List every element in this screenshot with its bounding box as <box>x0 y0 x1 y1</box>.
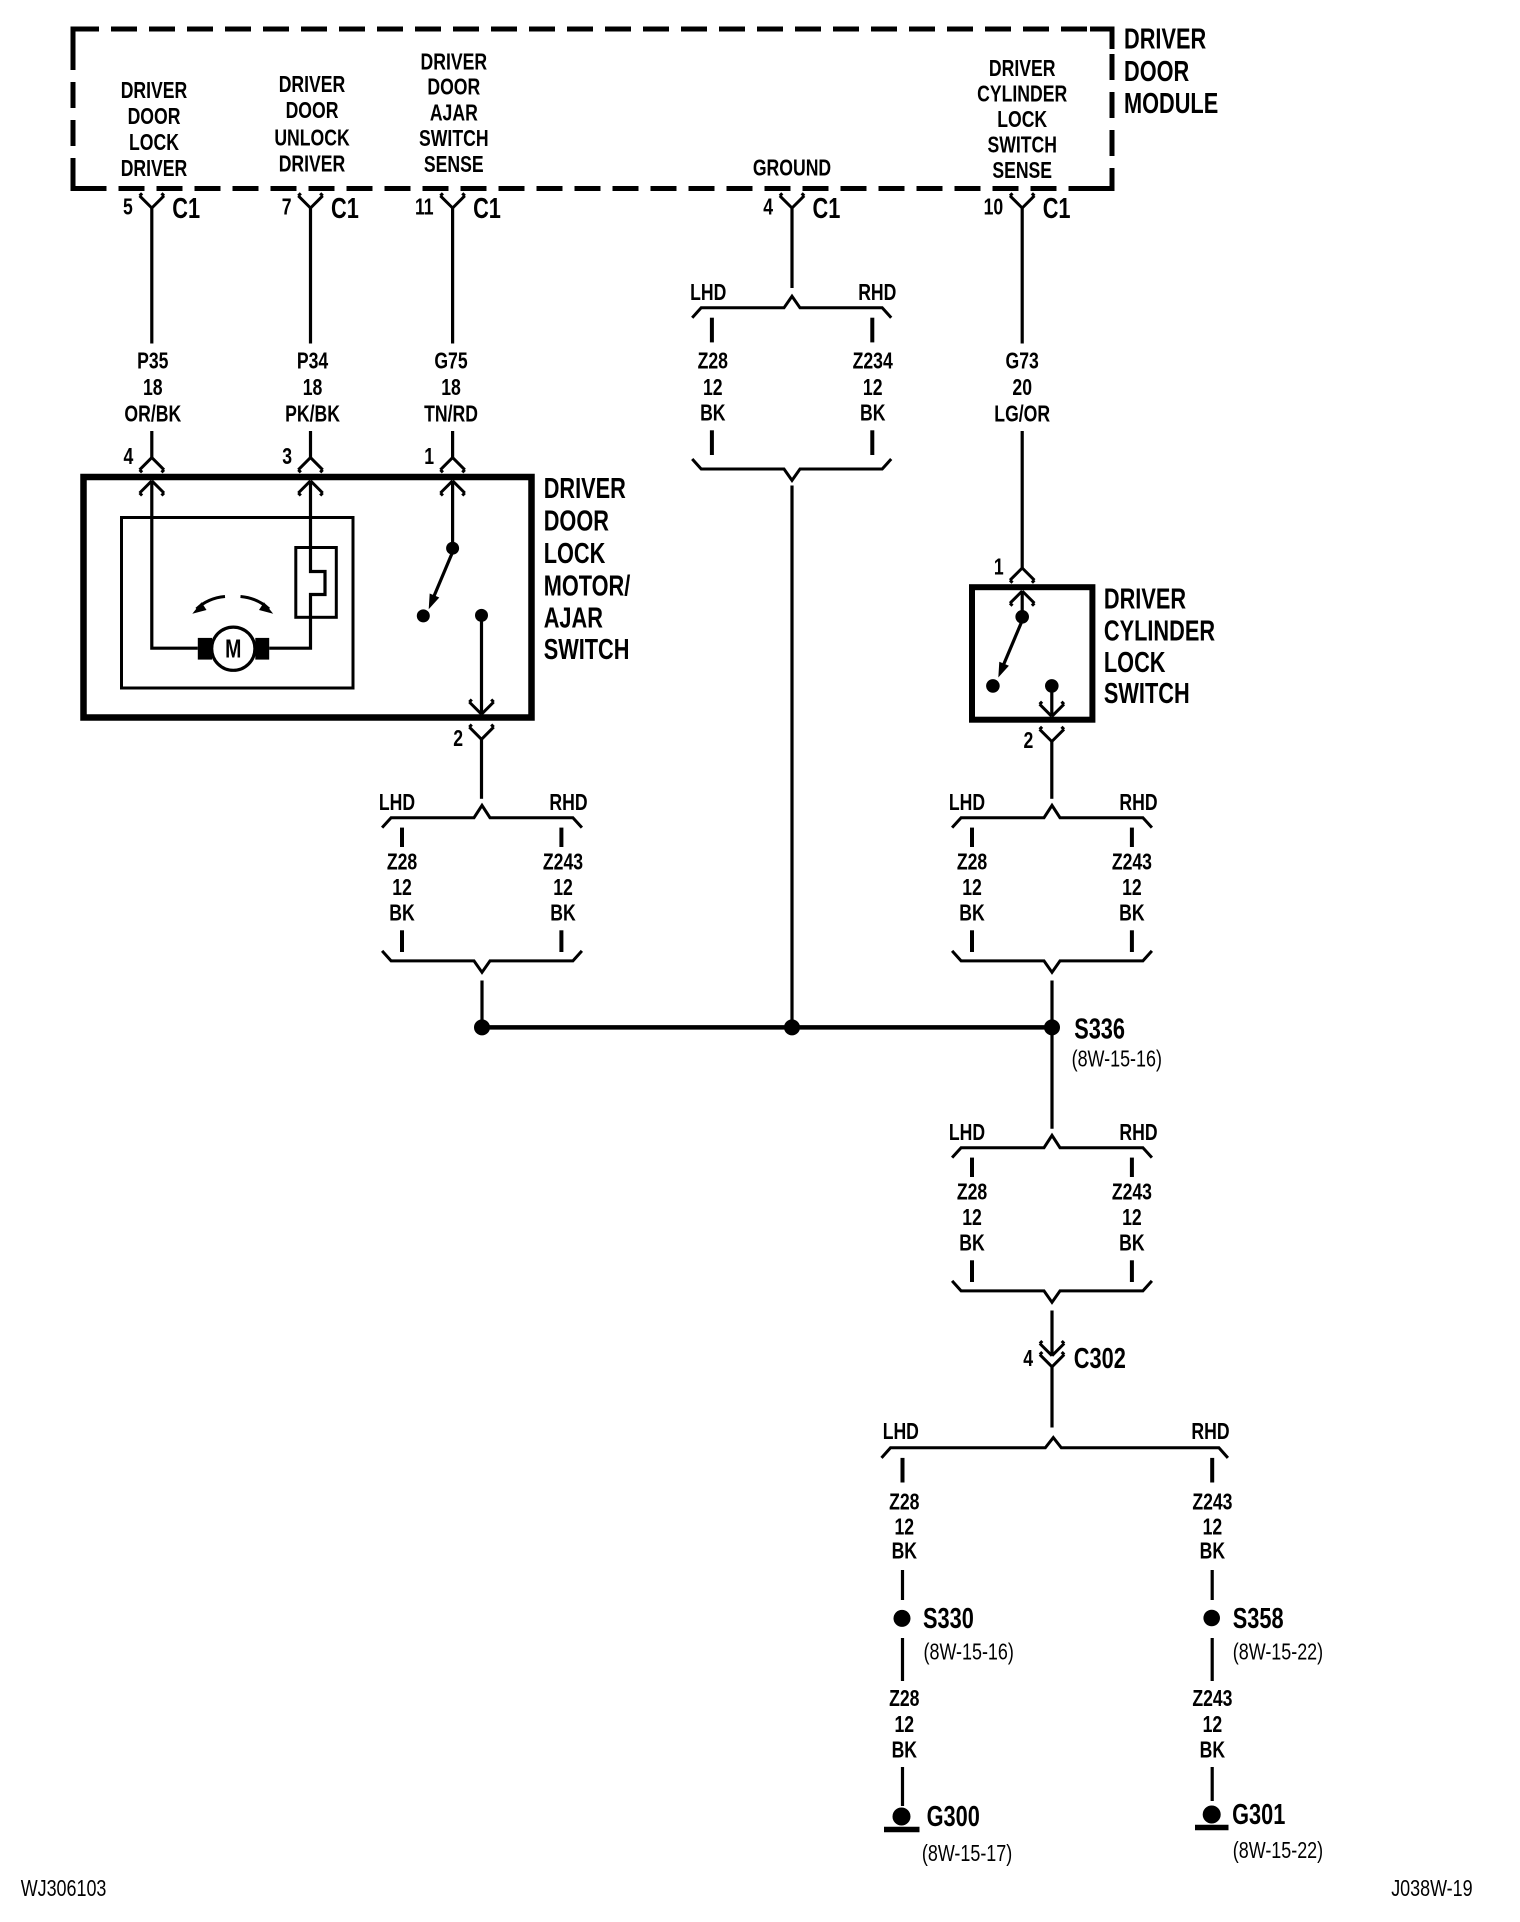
module pin label: DRIVER CYLINDER LOCK SWITCH SENSE <box>977 56 1067 184</box>
merge brace (cylinder) <box>952 951 1152 972</box>
svg-text:Z28: Z28 <box>957 1179 987 1205</box>
svg-text:BK: BK <box>389 900 414 926</box>
svg-text:DOOR: DOOR <box>286 98 339 124</box>
svg-text:PK/BK: PK/BK <box>285 401 340 427</box>
wire to connector C302 <box>1050 1311 1053 1356</box>
svg-text:3: 3 <box>282 444 292 470</box>
svg-text:CYLINDER: CYLINDER <box>977 81 1067 107</box>
svg-text:RHD: RHD <box>1191 1419 1229 1445</box>
wire latch to motor <box>269 617 310 648</box>
svg-text:C302: C302 <box>1074 1343 1126 1375</box>
svg-text:BK: BK <box>550 900 575 926</box>
svg-text:DRIVER: DRIVER <box>279 72 346 98</box>
svg-text:M: M <box>225 634 241 663</box>
svg-text:C1: C1 <box>331 193 359 225</box>
svg-text:DOOR: DOOR <box>1124 56 1189 88</box>
svg-text:DRIVER: DRIVER <box>1104 584 1186 616</box>
svg-text:12: 12 <box>863 375 883 401</box>
wire S336 down <box>1050 1027 1053 1128</box>
wire pin2 to LHD/RHD split (cylinder) <box>1050 742 1053 799</box>
svg-text:BK: BK <box>1200 1737 1225 1763</box>
splice bus wire <box>482 1025 1052 1030</box>
svg-text:LHD: LHD <box>949 789 985 815</box>
svg-text:18: 18 <box>143 375 163 401</box>
box pin 1 connector <box>424 444 465 496</box>
svg-text:S336: S336 <box>1074 1014 1125 1046</box>
ground G300 <box>884 1801 1012 1866</box>
wire Z28 12 BK (LHD cylinder) <box>957 828 987 952</box>
svg-text:12: 12 <box>392 875 412 901</box>
wire P34 18 PK/BK (pin 7 to unlock) <box>285 208 340 458</box>
svg-text:4: 4 <box>1023 1346 1033 1372</box>
svg-text:12: 12 <box>553 875 573 901</box>
connector C1 pin 7 <box>282 193 359 225</box>
svg-text:12: 12 <box>1203 1514 1223 1540</box>
svg-text:AJAR: AJAR <box>544 603 603 635</box>
wire S330 to G300: Z28 12 BK <box>889 1638 919 1806</box>
svg-text:(8W-15-22): (8W-15-22) <box>1233 1838 1323 1864</box>
component box: DRIVER CYLINDER LOCK SWITCH <box>972 587 1092 720</box>
box pin 4 connector <box>123 444 164 496</box>
motor M1 (door lock motor) <box>198 627 269 670</box>
wire Z234 12 BK (RHD ground) <box>853 318 894 455</box>
inner lock-motor assembly box <box>122 518 354 689</box>
svg-text:Z243: Z243 <box>1192 1489 1232 1515</box>
cylinder lock switch SW2 <box>986 591 1058 716</box>
wire cylinder to splice S336 <box>1050 981 1053 1028</box>
svg-text:12: 12 <box>962 875 982 901</box>
svg-text:BK: BK <box>1200 1538 1225 1564</box>
svg-text:12: 12 <box>894 1711 914 1737</box>
svg-text:RHD: RHD <box>858 280 896 306</box>
svg-text:DOOR: DOOR <box>427 74 480 100</box>
svg-text:(8W-15-16): (8W-15-16) <box>1072 1046 1162 1072</box>
wire G75 18 TN/RD (pin 11 ajar switch sense) <box>424 208 478 458</box>
svg-text:Z243: Z243 <box>1112 849 1152 875</box>
svg-text:18: 18 <box>441 375 461 401</box>
svg-text:C1: C1 <box>1043 193 1071 225</box>
merge brace (ajar) <box>382 951 582 972</box>
module pin label: DRIVER DOOR LOCK DRIVER <box>121 78 188 182</box>
svg-text:SENSE: SENSE <box>424 152 484 178</box>
svg-text:GROUND: GROUND <box>753 155 831 181</box>
svg-text:2: 2 <box>453 725 463 751</box>
svg-text:WJ306103: WJ306103 <box>21 1876 107 1902</box>
svg-text:C1: C1 <box>172 193 200 225</box>
svg-text:Z243: Z243 <box>1192 1686 1232 1712</box>
wire S358 to G301: Z243 12 BK <box>1192 1638 1232 1801</box>
wire pin4 to motor <box>152 481 198 648</box>
svg-text:BK: BK <box>860 400 885 426</box>
svg-text:RHD: RHD <box>549 789 587 815</box>
svg-text:Z28: Z28 <box>889 1489 919 1515</box>
module pin label: DRIVER DOOR AJAR SWITCH SENSE <box>419 49 488 178</box>
wire pin3 to latch <box>309 481 312 548</box>
splice S336 <box>1044 1014 1162 1072</box>
wire ground to splice S336 <box>790 486 793 1028</box>
svg-text:(8W-15-17): (8W-15-17) <box>922 1841 1012 1867</box>
svg-text:LHD: LHD <box>949 1119 985 1145</box>
svg-text:BK: BK <box>892 1737 917 1763</box>
svg-text:4: 4 <box>123 444 133 470</box>
LHD/RHD wide split brace <box>882 1419 1230 1458</box>
wire Z28 12 BK (LHD ground) <box>698 318 728 455</box>
svg-text:SENSE: SENSE <box>992 158 1052 184</box>
svg-text:SWITCH: SWITCH <box>987 132 1056 158</box>
svg-text:C1: C1 <box>473 193 501 225</box>
wire Z243 12 BK (RHD branch) <box>1192 1458 1232 1600</box>
svg-text:G301: G301 <box>1232 1799 1285 1831</box>
svg-text:SWITCH: SWITCH <box>419 126 488 152</box>
wire Z28 12 BK (LHD ajar) <box>387 828 417 952</box>
junction node (ajar) <box>474 1019 490 1035</box>
sheet number J038W-19 <box>1391 1876 1472 1902</box>
svg-text:OR/BK: OR/BK <box>124 401 181 427</box>
merge brace (S336 split) <box>952 1281 1152 1302</box>
svg-text:G300: G300 <box>927 1801 980 1833</box>
svg-text:LOCK: LOCK <box>544 538 606 570</box>
wire P35 18 OR/BK (pin 5 to lock motor) <box>124 208 181 458</box>
box pin 2 connector (cylinder switch out) <box>1023 702 1064 754</box>
svg-text:10: 10 <box>984 194 1004 220</box>
connector C1 pin 4 <box>763 193 840 225</box>
svg-text:LHD: LHD <box>883 1419 919 1445</box>
svg-text:DRIVER: DRIVER <box>989 56 1056 82</box>
svg-text:LHD: LHD <box>690 280 726 306</box>
LHD/RHD split brace (cylinder switch) <box>949 789 1158 827</box>
svg-text:J038W-19: J038W-19 <box>1391 1876 1472 1902</box>
svg-text:G73: G73 <box>1006 348 1039 374</box>
label: DRIVER DOOR MODULE <box>1124 23 1218 119</box>
svg-text:DRIVER: DRIVER <box>421 49 488 75</box>
svg-text:(8W-15-16): (8W-15-16) <box>924 1639 1014 1665</box>
svg-text:BK: BK <box>1119 900 1144 926</box>
svg-text:11: 11 <box>415 194 434 220</box>
svg-text:UNLOCK: UNLOCK <box>274 125 349 151</box>
wire Z243 12 BK (RHD S336) <box>1112 1158 1152 1282</box>
svg-text:DOOR: DOOR <box>128 104 181 130</box>
svg-text:12: 12 <box>1122 875 1142 901</box>
svg-text:RHD: RHD <box>1119 789 1157 815</box>
rotation arrows <box>192 597 273 614</box>
svg-text:12: 12 <box>703 375 723 401</box>
svg-text:DRIVER: DRIVER <box>279 151 346 177</box>
svg-text:S330: S330 <box>923 1603 974 1635</box>
svg-text:RHD: RHD <box>1119 1119 1157 1145</box>
svg-text:LOCK: LOCK <box>1104 647 1166 679</box>
connector C1 pin 11 <box>415 193 501 225</box>
svg-text:BK: BK <box>959 1230 984 1256</box>
module U1: DRIVER DOOR MODULE dashed box <box>73 29 1112 189</box>
wire ground pin 4 <box>790 208 793 288</box>
LHD/RHD split brace (below S336) <box>949 1119 1158 1157</box>
label: DRIVER CYLINDER LOCK SWITCH <box>1104 584 1215 710</box>
wire Z28 12 BK (LHD branch) <box>889 1458 919 1600</box>
svg-text:Z28: Z28 <box>889 1686 919 1712</box>
wire G73 20 LG/OR (pin 10 cylinder lock switch sense) <box>994 208 1050 568</box>
svg-text:5: 5 <box>123 194 133 220</box>
wire Z28 12 BK (LHD S336) <box>957 1158 987 1282</box>
svg-text:2: 2 <box>1023 728 1033 754</box>
box pin 2 connector (ajar switch out) <box>453 700 494 752</box>
splice S358 <box>1203 1603 1323 1665</box>
svg-text:18: 18 <box>303 375 323 401</box>
svg-text:DRIVER: DRIVER <box>544 473 626 505</box>
junction node (ground) <box>784 1019 800 1035</box>
ground G301 <box>1195 1799 1323 1863</box>
wire C302 to wide split <box>1050 1367 1053 1428</box>
svg-text:Z28: Z28 <box>698 348 728 374</box>
svg-text:1: 1 <box>424 444 434 470</box>
svg-text:AJAR: AJAR <box>430 100 478 126</box>
svg-text:G75: G75 <box>434 348 467 374</box>
svg-text:12: 12 <box>1203 1711 1223 1737</box>
svg-text:Z28: Z28 <box>387 849 417 875</box>
svg-text:DOOR: DOOR <box>544 506 609 538</box>
svg-text:1: 1 <box>994 554 1004 580</box>
connector C302 pin 4 <box>1023 1341 1126 1375</box>
connector C1 pin 5 <box>123 193 200 225</box>
svg-text:(8W-15-22): (8W-15-22) <box>1233 1639 1323 1665</box>
label: DRIVER DOOR LOCK MOTOR/AJAR SWITCH <box>544 473 631 666</box>
svg-text:DRIVER: DRIVER <box>121 78 188 104</box>
LHD/RHD split brace (ajar switch) <box>379 789 588 827</box>
module pin label: GROUND <box>753 155 831 181</box>
svg-text:P34: P34 <box>297 348 329 374</box>
svg-text:LOCK: LOCK <box>997 107 1047 133</box>
svg-text:SWITCH: SWITCH <box>544 634 630 666</box>
svg-text:MODULE: MODULE <box>1124 88 1218 120</box>
box pin 3 connector <box>282 444 323 496</box>
sheet number WJ306103 <box>21 1876 107 1902</box>
svg-text:Z28: Z28 <box>957 849 987 875</box>
module pin label: DRIVER DOOR UNLOCK DRIVER <box>274 72 349 177</box>
svg-text:TN/RD: TN/RD <box>424 401 478 427</box>
LHD/RHD split brace (ground) <box>690 280 896 318</box>
svg-text:DRIVER: DRIVER <box>1124 23 1206 55</box>
svg-text:C1: C1 <box>813 193 841 225</box>
svg-text:Z234: Z234 <box>853 348 894 374</box>
svg-text:DRIVER: DRIVER <box>121 156 188 182</box>
splice S330 <box>894 1603 1014 1665</box>
box pin 1 connector (cylinder switch) <box>994 554 1035 606</box>
svg-text:7: 7 <box>282 194 292 220</box>
svg-text:LHD: LHD <box>379 789 415 815</box>
wire Z243 12 BK (RHD cylinder) <box>1112 828 1152 952</box>
wire pin2 to LHD/RHD split <box>480 739 483 799</box>
svg-text:12: 12 <box>1122 1205 1142 1231</box>
svg-text:BK: BK <box>700 400 725 426</box>
merge brace (ground) <box>692 459 891 480</box>
wire Z243 12 BK (RHD ajar) <box>543 828 583 952</box>
component box: DRIVER DOOR LOCK MOTOR / AJAR SWITCH <box>84 477 532 718</box>
svg-text:SWITCH: SWITCH <box>1104 678 1190 710</box>
svg-text:S358: S358 <box>1233 1603 1284 1635</box>
door ajar switch SW1 <box>417 481 488 714</box>
svg-text:4: 4 <box>763 194 773 220</box>
svg-text:BK: BK <box>892 1538 917 1564</box>
svg-text:LOCK: LOCK <box>129 130 179 156</box>
svg-text:LG/OR: LG/OR <box>994 401 1050 427</box>
svg-text:BK: BK <box>1119 1230 1144 1256</box>
svg-text:MOTOR/: MOTOR/ <box>544 570 631 602</box>
svg-text:12: 12 <box>962 1205 982 1231</box>
door latch symbol <box>296 548 337 618</box>
svg-text:P35: P35 <box>137 348 168 374</box>
svg-text:CYLINDER: CYLINDER <box>1104 616 1215 648</box>
svg-text:Z243: Z243 <box>543 849 583 875</box>
wire ajar to splice S336 <box>480 981 483 1028</box>
svg-text:BK: BK <box>959 900 984 926</box>
svg-text:20: 20 <box>1012 375 1032 401</box>
svg-text:Z243: Z243 <box>1112 1179 1152 1205</box>
connector C1 pin 10 <box>984 193 1071 225</box>
svg-text:12: 12 <box>894 1514 914 1540</box>
